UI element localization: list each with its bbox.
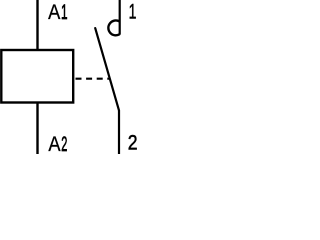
terminal label 2: [128, 131, 138, 155]
svg-text:2: 2: [128, 131, 138, 155]
wire: A2 terminal lead: [36, 103, 38, 155]
mechanical linkage (dashed line): [76, 78, 110, 80]
svg-text:A: A: [48, 133, 61, 157]
wire: A1 terminal lead: [36, 0, 38, 50]
terminal label A2: [48, 133, 61, 157]
fixed contact hook arc: [108, 20, 119, 35]
svg-text:2: 2: [61, 132, 67, 156]
svg-text:A: A: [48, 1, 61, 25]
terminal label A1: [48, 1, 61, 25]
wire: contact terminal 2 lead: [118, 110, 120, 154]
wire: contact terminal 1 lead: [119, 0, 121, 35]
contactor coil (rectangle): [1, 50, 73, 103]
moving contact (diagonal lever): [95, 28, 119, 110]
svg-text:1: 1: [129, 0, 137, 23]
svg-text:1: 1: [61, 0, 68, 24]
terminal label 1: [129, 0, 137, 23]
